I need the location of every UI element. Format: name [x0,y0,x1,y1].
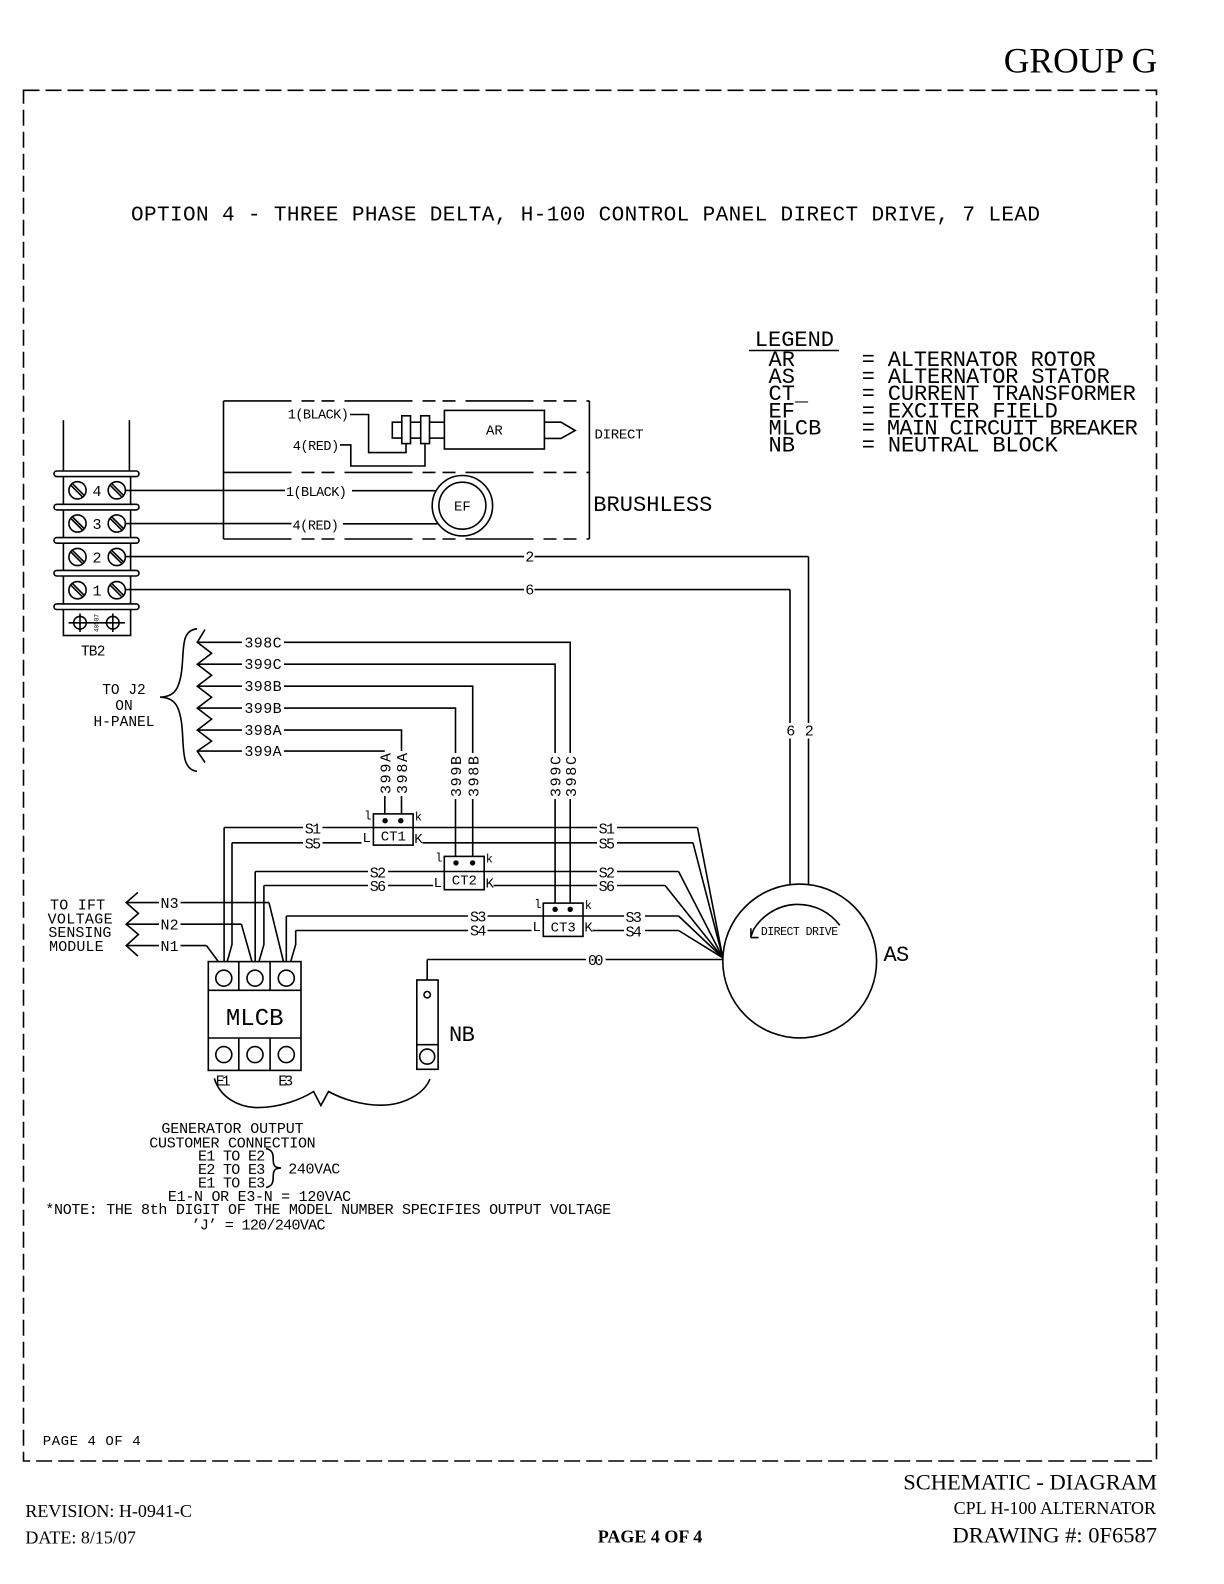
TB2 screw terminals row 3 [69,515,126,534]
svg-text:NB: NB [769,434,795,459]
svg-text:2: 2 [92,551,101,568]
svg-text:BRUSHLESS: BRUSHLESS [593,493,712,518]
svg-text:REVISION: H-0941-C: REVISION: H-0941-C [25,1501,192,1521]
svg-text:l: l [364,810,371,824]
svg-text:K: K [486,876,495,892]
svg-text:399A: 399A [244,744,281,761]
svg-text:TO J2: TO J2 [102,683,146,699]
wire S3 CT3 primary [286,910,723,971]
wire 6 from TB2-1 to AS stator [125,583,795,885]
TB2 mounting cross terminals [69,614,125,633]
harness brace TO J2 [94,629,197,772]
svg-text:NB: NB [449,1023,475,1048]
svg-text:l: l [534,898,541,912]
svg-text:CT1: CT1 [381,830,406,846]
svg-text:E3: E3 [278,1074,293,1091]
wire exciter lead 4(RED) from TB2-3 [125,519,438,534]
svg-text:398C: 398C [244,635,281,652]
svg-text:399B: 399B [244,701,281,718]
svg-text:399A: 399A [378,753,395,794]
svg-text:CPL H-100 ALTERNATOR: CPL H-100 ALTERNATOR [954,1498,1156,1518]
wire 398C [199,635,581,909]
svg-text:2: 2 [525,550,534,567]
wire 399B [199,701,467,863]
terminal block TB2 [54,420,139,635]
svg-text:1(BLACK): 1(BLACK) [288,409,349,424]
svg-text:N2: N2 [161,917,179,934]
label TO IFT VOLTAGE SENSING MODULE [48,898,113,956]
svg-text:DRAWING #: 0F6587: DRAWING #: 0F6587 [953,1523,1157,1548]
svg-text:*NOTE: THE 8th DIGIT OF THE MO: *NOTE: THE 8th DIGIT OF THE MODEL NUMBER… [45,1202,611,1219]
svg-text:240VAC: 240VAC [288,1162,340,1179]
legend [749,328,1138,459]
svg-text:4(RED): 4(RED) [293,519,339,534]
wire N3 [126,896,284,963]
wire 00 neutral to AS [427,953,723,980]
svg-text:AS: AS [884,943,910,968]
svg-text:k: k [585,899,592,913]
wire 399C [199,657,566,909]
svg-text:N1: N1 [161,939,179,956]
wire S4 CT3 secondary [289,924,723,968]
svg-text:1: 1 [92,584,101,601]
svg-text:PAGE 4 OF 4: PAGE 4 OF 4 [43,1434,141,1450]
svg-text:k: k [415,811,422,825]
svg-text:TB2: TB2 [81,645,106,661]
wire 398A [199,723,413,821]
svg-text:40587: 40587 [94,614,101,632]
wire rotor lead 1(BLACK) [288,409,406,453]
current transformer CT2 [434,852,495,893]
alternator stator AS [723,884,909,1038]
svg-text:DATE: 8/15/07: DATE: 8/15/07 [25,1528,135,1548]
wire rotor lead 4(RED) [293,440,425,466]
svg-text:ON: ON [115,699,132,715]
wire S6 CT2 secondary [257,879,723,967]
svg-text:L: L [533,920,541,936]
svg-text:= NEUTRAL BLOCK: = NEUTRAL BLOCK [862,434,1059,459]
wire N1 [126,939,222,967]
wire exciter lead 1(BLACK) from TB2-4 [125,486,436,501]
svg-text:6: 6 [786,724,795,741]
svg-text:S5: S5 [599,837,615,854]
wire S5 CT1 secondary [226,837,723,968]
svg-text:OPTION 4 - THREE PHASE DELTA,: OPTION 4 - THREE PHASE DELTA, H-100 CONT… [131,204,1040,227]
svg-text:SCHEMATIC - DIAGRAM: SCHEMATIC - DIAGRAM [903,1470,1157,1495]
svg-text:DIRECT DRIVE: DIRECT DRIVE [761,926,838,939]
exciter field EF [432,476,492,536]
svg-text:6: 6 [525,583,534,600]
svg-text:MLCB: MLCB [226,1006,284,1033]
svg-text:399B: 399B [449,756,466,797]
svg-text:K: K [584,921,593,937]
svg-text:S5: S5 [305,837,321,854]
svg-text:398B: 398B [244,679,281,696]
svg-text:L: L [434,876,442,892]
wire 2 from TB2-2 to AS stator [125,550,813,885]
svg-text:CT2: CT2 [452,874,477,890]
harness arrow zigzag IFT [126,892,138,956]
svg-text:3: 3 [92,517,101,534]
svg-text:EF: EF [454,500,471,516]
rotor assembly dashed enclosure [224,401,590,539]
TB2 screw terminals row 4 [69,482,126,501]
svg-text:H-PANEL: H-PANEL [94,715,155,731]
TB2 screw terminals row 2 [69,548,126,567]
current transformer CT3 [533,898,594,937]
harness arrow zigzag J2 [197,630,211,763]
svg-text:4: 4 [92,484,101,501]
svg-text:1(BLACK): 1(BLACK) [286,486,347,501]
svg-text:l: l [435,852,442,866]
wire S1 CT1 primary to MLCB and AS [224,822,723,971]
svg-text:399C: 399C [549,756,566,797]
wire 398B [199,679,484,863]
svg-text:399C: 399C [244,657,281,674]
main circuit breaker MLCB [208,962,301,1091]
svg-text:K: K [414,832,423,848]
svg-text:00: 00 [588,953,604,970]
note generator output customer connection [45,1121,611,1235]
svg-text:PAGE 4 OF 4: PAGE 4 OF 4 [598,1527,703,1547]
svg-text:’J’ = 120/240VAC: ’J’ = 120/240VAC [192,1218,326,1235]
svg-text:398A: 398A [395,753,412,794]
svg-text:CT3: CT3 [551,920,576,936]
neutral block NB [417,980,475,1069]
svg-text:398B: 398B [466,756,483,797]
svg-text:S4: S4 [626,925,642,942]
output underbrace [214,1078,430,1107]
svg-text:L: L [363,831,371,847]
svg-text:N3: N3 [161,896,179,913]
svg-text:S6: S6 [370,879,386,896]
svg-text:S4: S4 [470,924,486,941]
current transformer CT1 [363,810,424,849]
wire N2 [126,917,253,964]
svg-text:AR: AR [486,424,503,440]
TB2 screw terminals row 1 [69,582,126,601]
svg-text:398A: 398A [244,723,281,740]
svg-text:398C: 398C [564,756,581,797]
svg-text:DIRECT: DIRECT [595,428,644,444]
svg-text:4(RED): 4(RED) [293,440,339,455]
alternator rotor AR [392,410,575,449]
svg-text:2: 2 [805,724,814,741]
wire S2 CT2 primary [255,866,723,971]
svg-text:MODULE: MODULE [49,939,104,956]
svg-text:S6: S6 [599,879,615,896]
svg-text:GROUP G: GROUP G [1004,41,1158,81]
svg-text:k: k [486,853,493,867]
wire 399A [199,744,396,821]
